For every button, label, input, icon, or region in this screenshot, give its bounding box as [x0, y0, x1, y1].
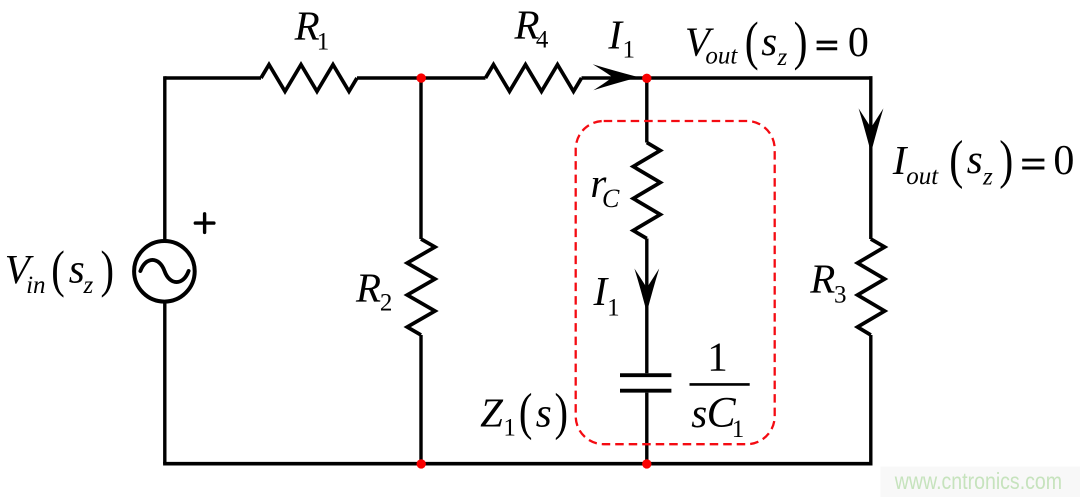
node dot bottom B	[642, 459, 651, 468]
svg-text:0: 0	[848, 20, 869, 66]
svg-text:R: R	[809, 255, 835, 301]
svg-text:): )	[999, 131, 1013, 190]
svg-text:2: 2	[380, 289, 393, 316]
resistor R4	[486, 65, 582, 92]
arrow I1 right at node	[593, 64, 639, 90]
svg-text:(: (	[949, 131, 963, 190]
svg-text:(: (	[519, 383, 533, 441]
wire R2 branch upper	[419, 78, 422, 239]
svg-text:out: out	[906, 163, 939, 190]
svg-text:0: 0	[1053, 138, 1074, 184]
wire top rail right segment	[582, 76, 873, 79]
wire right column upper	[869, 76, 872, 239]
svg-text:in: in	[26, 272, 45, 299]
capacitor C1 top plate	[620, 373, 671, 377]
svg-text:s: s	[69, 246, 85, 292]
svg-text:1: 1	[623, 37, 636, 64]
source V_in circle	[134, 241, 195, 302]
svg-text:1: 1	[317, 28, 330, 55]
svg-text:3: 3	[834, 282, 847, 309]
svg-text:1: 1	[607, 294, 620, 321]
svg-text:www.cntronics.com: www.cntronics.com	[894, 467, 1062, 494]
svg-text:1: 1	[732, 416, 745, 443]
wire left column lower	[163, 303, 166, 464]
svg-text:1: 1	[503, 415, 516, 442]
svg-text:s: s	[691, 390, 707, 436]
svg-text:z: z	[777, 44, 788, 71]
svg-text:): )	[794, 12, 808, 71]
svg-text:z: z	[982, 163, 993, 190]
svg-text:Z: Z	[480, 390, 504, 436]
svg-text:4: 4	[536, 27, 549, 54]
wire R2 branch lower	[419, 335, 422, 464]
wire left column upper	[163, 76, 166, 240]
wire top rail left segment	[165, 76, 262, 79]
svg-text:1: 1	[707, 334, 728, 380]
wire Z1 branch lower	[645, 393, 648, 464]
svg-text:z: z	[83, 272, 94, 299]
source sine wave	[140, 260, 188, 282]
wire Z1 branch upper	[645, 78, 648, 143]
capacitor C1 bottom plate	[620, 389, 671, 393]
wire right column lower	[869, 335, 872, 464]
svg-text:s: s	[761, 18, 777, 64]
wire top rail middle segment	[357, 76, 486, 79]
svg-text:C: C	[602, 184, 620, 213]
dashed box Z1 region	[576, 121, 775, 444]
wire Z1 branch middle	[645, 239, 648, 374]
plus sign	[195, 214, 214, 233]
node dot bottom A	[417, 459, 426, 468]
resistor R1	[261, 65, 357, 92]
wire bottom rail	[163, 462, 872, 466]
watermark background strip	[880, 467, 1080, 497]
svg-text:R: R	[294, 3, 320, 49]
svg-text:out: out	[705, 43, 738, 70]
resistor rC	[633, 143, 660, 239]
resistor R2	[407, 239, 435, 335]
svg-text:(: (	[745, 12, 759, 71]
resistor R3	[858, 239, 885, 335]
svg-text:s: s	[967, 136, 983, 182]
svg-text:(: (	[51, 241, 65, 299]
arrow I1 down on Z1 branch	[634, 269, 659, 313]
svg-text:): )	[555, 383, 569, 441]
arrow I_out down on right column	[859, 108, 884, 152]
svg-text:s: s	[536, 390, 552, 436]
svg-text:R: R	[355, 265, 381, 311]
node dot top A	[417, 73, 426, 82]
svg-text:): )	[101, 241, 115, 299]
node dot top B	[642, 74, 651, 83]
